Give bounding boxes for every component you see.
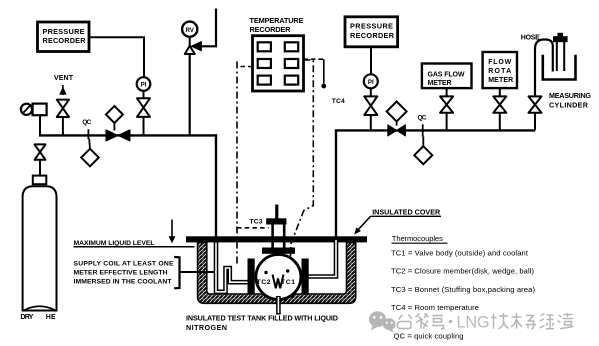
watermark icon [369,311,396,332]
QC diamond (left) [81,139,99,166]
svg-text:QC: QC [418,114,427,121]
label INSULATED COVER [371,207,442,216]
supply coil pipe in tank [216,241,248,292]
quick coupling tick (left) [87,129,89,139]
test valve: body [256,255,301,300]
test valve: packing flange [266,218,286,224]
pressure recorder PR1 (left) [38,22,90,52]
quick coupling tick (right) [422,124,424,136]
wire GFM to valve V7 [446,88,448,96]
outlet riser to main line [335,130,337,241]
thermocouple lead TC1/TC2 (dash-dot into tank) [290,60,313,260]
pressure regulator PRV [21,104,47,116]
wire V7 to main line [446,113,448,131]
svg-text:MAXIMUM LIQUID LEVEL: MAXIMUM LIQUID LEVEL [74,240,155,247]
svg-text:HE: HE [46,314,56,321]
relief valve RV [182,22,201,54]
liquid level arrow [169,220,176,244]
svg-text:TC1 = Valve body (outside) and: TC1 = Valve body (outside) and coolant [391,248,529,257]
label MEASURING CYLINDER [549,91,591,110]
relief valve branch wire [189,54,191,135]
svg-text:DRY: DRY [20,314,33,321]
insulated cover [186,236,367,242]
QC diamond (right) [414,137,432,165]
label INSULATED TEST TANK [186,313,338,332]
valve V7 [440,96,453,112]
svg-text:RECORDER: RECORDER [350,31,395,40]
wire PI1 to valve V1 [143,91,145,98]
svg-text:TC3 = Bonnet (Stuffing box,pac: TC3 = Bonnet (Stuffing box,packing area) [391,285,535,294]
valve V8 [493,96,506,112]
valve V1 [137,98,150,117]
diamond actuator above V3 [106,106,123,130]
wire V4 to cylinder [39,160,41,176]
wire V8 to main line [499,113,501,131]
svg-text:NITROGEN: NITROGEN [186,323,227,332]
cover leader arrow [354,216,370,234]
supply coil brace [174,257,179,288]
svg-text:METER: METER [488,77,513,84]
wire V9 to main line [534,113,536,131]
svg-text:RV: RV [185,27,194,34]
svg-text:MEASURING: MEASURING [549,91,591,100]
svg-text:RECORDER: RECORDER [43,36,87,45]
svg-text:PRESSURE: PRESSURE [43,27,85,36]
valve V5 [364,96,377,115]
outlet pipe in tank [308,239,336,277]
gauge PI1 [137,77,151,91]
svg-text:TC4: TC4 [332,98,345,105]
RV discharge pipe [202,9,216,47]
cylinder valve V4 [35,144,46,159]
svg-text:GAS FLOW: GAS FLOW [428,71,465,78]
watermark text [398,313,574,329]
main supply line (left) [39,134,217,136]
vent up-arrow [59,85,66,95]
thermocouple lead TC3 (dash-dot down to bonnet) [237,62,269,267]
svg-text:TC3: TC3 [250,218,263,225]
svg-text:Thermocouples: Thermocouples [392,234,443,243]
svg-text:RECORDER: RECORDER [250,25,292,34]
globe valve V6 (filled, on right main line) [388,125,406,136]
svg-text:SUPPLY COIL AT LEAST ONE: SUPPLY COIL AT LEAST ONE [74,260,174,267]
svg-text:PRESSURE: PRESSURE [350,22,393,31]
vent valve V2 [57,100,69,117]
test valve: stem [275,205,278,219]
wire FRM to valve V8 [499,88,501,96]
flow rota meter FRM [483,52,517,88]
label SUPPLY COIL [74,260,174,285]
svg-text:FLOW: FLOW [488,59,511,66]
svg-text:PI: PI [368,79,374,86]
wire V5 to main line [370,115,372,130]
svg-text:LNG: LNG [457,314,490,332]
globe valve V3 (filled, on left main line) [106,130,130,141]
gauge PI2 [364,74,378,88]
measuring tube [553,33,568,71]
test valve: right flange [302,259,309,294]
hose [535,40,553,97]
svg-text:INSULATED COVER: INSULATED COVER [372,207,441,216]
wire PR1 to PI1 [89,37,144,77]
gas cylinder body [23,186,57,310]
temperature recorder TR box [253,36,304,91]
test valve: left flange [248,259,255,294]
label DRY HE [20,314,56,321]
test valve: bonnet tube [273,224,285,249]
svg-text:TEMPERATURE: TEMPERATURE [250,16,304,25]
wire PI2 to valve V5 [370,88,372,96]
wire regulator to main line [39,115,41,135]
label MAXIMUM LIQUID LEVEL [74,240,195,247]
svg-text:QC: QC [82,119,91,126]
test valve: bonnet flange [262,248,295,254]
test valve: wedge mark [273,275,284,289]
svg-text:INSULATED TEST TANK FILLED WIT: INSULATED TEST TANK FILLED WITH LIQUID [186,313,338,322]
TC contact dots [264,271,267,274]
wire V1 to main line [143,117,145,135]
supply coil leader [180,271,215,273]
svg-text:ROTA: ROTA [488,68,511,75]
thermocouple lead TC4 [304,59,327,88]
svg-text:METER EFFECTIVE LENGTH: METER EFFECTIVE LENGTH [74,269,168,276]
svg-text:TC1: TC1 [281,279,295,286]
label TEMPERATURE RECORDER [250,16,304,34]
svg-text:TC2: TC2 [257,279,271,286]
svg-text:TC4 = Room temperature: TC4 = Room temperature [391,303,479,312]
drain pipe below valve [276,296,281,315]
svg-text:TC2 = Closure member(disk, wed: TC2 = Closure member(disk, wedge, ball) [391,267,534,276]
gas cylinder neck [33,176,47,185]
test tank walls (hatched) [198,242,356,303]
svg-text:PI: PI [141,82,147,89]
wire PR2 to PI2 [370,47,372,75]
TR channel windows [258,42,298,84]
water bath beaker [543,55,576,80]
wire V2 to main line [62,117,64,135]
valve V9 (measuring branch) [529,96,542,112]
svg-text:VENT: VENT [54,75,74,82]
outlet main line (right) [335,129,535,131]
svg-text:QC = quick coupling: QC = quick coupling [394,332,464,341]
svg-text:METER: METER [428,80,452,87]
diamond actuator above V6 [387,102,407,126]
gas flow meter GFM [422,64,472,89]
svg-text:IMMERSED IN THE COOLANT: IMMERSED IN THE COOLANT [74,278,173,285]
inlet pipe into tank [215,134,217,238]
svg-text:CYLINDER: CYLINDER [549,101,589,110]
pressure recorder PR2 (right) [345,17,398,47]
legend: Thermocouples [391,234,535,341]
